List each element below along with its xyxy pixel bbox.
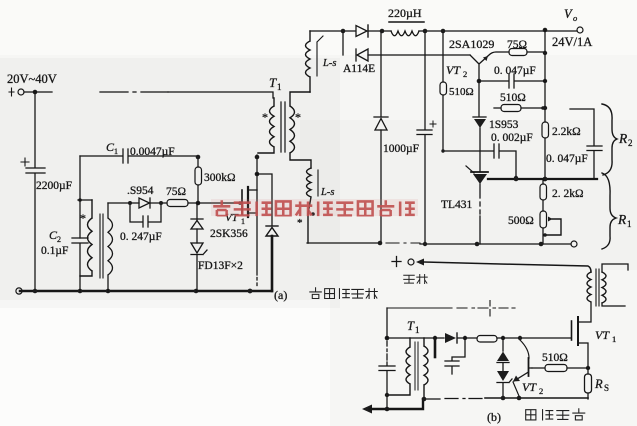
label input <box>404 275 428 284</box>
capacitor stub <box>434 338 437 357</box>
watermark text <box>211 199 418 216</box>
svg-text:500Ω: 500Ω <box>508 215 534 227</box>
capacitor 0.047uF no.2 <box>570 109 602 178</box>
capacitor protection left <box>379 341 395 409</box>
terminal bottom right <box>571 241 577 247</box>
svg-text:0. 047µF: 0. 047µF <box>546 153 588 165</box>
wire gate <box>198 202 239 204</box>
wire left vertical node <box>79 156 81 238</box>
node dots bottom rail <box>33 289 38 294</box>
resistor 2.2k upper <box>542 122 549 138</box>
terminal Vo <box>577 27 583 33</box>
svg-text:220µH: 220µH <box>388 6 422 20</box>
terminal bottom-left <box>16 288 22 294</box>
svg-text:2: 2 <box>539 386 543 396</box>
svg-text:R: R <box>618 131 628 146</box>
svg-text:R: R <box>594 377 603 391</box>
transformer T1 aux winding left <box>80 200 92 276</box>
transformer T1 secondary winding <box>290 92 311 168</box>
svg-text:1: 1 <box>114 147 118 156</box>
core aux <box>100 214 103 278</box>
transformer T1b upper right <box>587 272 591 302</box>
svg-text:2SA1029: 2SA1029 <box>449 37 494 51</box>
svg-text:2: 2 <box>463 69 467 79</box>
wire protection left column <box>386 308 388 338</box>
svg-text:o: o <box>573 13 577 23</box>
terminal input plus <box>392 257 401 267</box>
svg-text:(b): (b) <box>487 410 501 424</box>
diode FD13F no.1 <box>191 203 203 220</box>
resistor 2.2k lower <box>540 184 547 200</box>
svg-text:1: 1 <box>627 219 632 229</box>
diode secondary rectifier <box>374 33 388 117</box>
svg-text:510Ω: 510Ω <box>449 86 474 98</box>
diode protection <box>445 333 456 343</box>
node dots top rail <box>341 29 346 34</box>
wire input top <box>24 91 52 93</box>
wire jog to clamp diode <box>257 174 272 226</box>
svg-text:*: * <box>262 110 268 124</box>
svg-text:.S954: .S954 <box>127 185 154 197</box>
svg-text:1: 1 <box>277 82 282 92</box>
diode FD13F no.2 zener <box>191 243 203 253</box>
svg-text:300kΩ: 300kΩ <box>204 172 236 184</box>
svg-text:1: 1 <box>612 334 616 344</box>
svg-text:*: * <box>80 211 86 225</box>
svg-text:VT: VT <box>446 63 461 77</box>
wire drain-source column <box>256 155 258 286</box>
svg-text:2. 2kΩ: 2. 2kΩ <box>552 188 584 200</box>
core T1 <box>281 102 285 152</box>
svg-text:2.2kΩ: 2.2kΩ <box>552 126 581 138</box>
svg-text:T: T <box>407 319 415 333</box>
inductor Ls upper <box>306 31 311 92</box>
node dots gate wire <box>501 336 505 340</box>
svg-text:(a): (a) <box>274 288 287 302</box>
wire bottom-left rail <box>20 290 272 293</box>
diode forward rectifier top <box>356 26 367 37</box>
svg-text:2SK356: 2SK356 <box>210 228 248 240</box>
svg-text:*: * <box>295 110 301 124</box>
svg-text:2200µF: 2200µF <box>36 180 72 192</box>
plus terminal mark <box>9 88 14 96</box>
capacitor 0.247uF parallel <box>130 203 161 227</box>
node input junction <box>33 90 38 95</box>
diode A114E <box>343 33 356 61</box>
wire feedback node <box>488 178 597 180</box>
svg-text:2: 2 <box>57 235 61 244</box>
wire bottom rail right <box>307 242 380 244</box>
svg-text:L-s: L-s <box>322 58 336 69</box>
capacitor 2200uF electrolytic <box>26 94 45 291</box>
diode 1S953 zener <box>473 81 486 117</box>
svg-text:75Ω: 75Ω <box>166 186 186 198</box>
wire dash-dot top <box>100 91 168 93</box>
svg-text:R: R <box>617 212 627 227</box>
svg-text:1S953: 1S953 <box>489 119 519 131</box>
resistor RS <box>585 374 592 393</box>
capacitor after diode <box>445 338 465 374</box>
wire right column <box>544 30 546 179</box>
svg-text:T: T <box>269 75 277 90</box>
svg-text:A114E: A114E <box>343 63 375 75</box>
svg-text:510Ω: 510Ω <box>500 92 526 104</box>
IC TL431 <box>466 166 474 173</box>
inductor Ls lower <box>307 168 312 243</box>
svg-text:2: 2 <box>628 138 633 148</box>
transistor VT2b protection <box>520 340 529 358</box>
brace R1 <box>602 173 616 249</box>
svg-text:0. 247µF: 0. 247µF <box>120 231 162 243</box>
resistor gate protection <box>477 336 497 343</box>
svg-text:510Ω: 510Ω <box>542 352 568 364</box>
svg-text:0.1µF: 0.1µF <box>41 245 68 257</box>
wire top rail <box>310 30 577 32</box>
svg-text:TL431: TL431 <box>441 199 473 211</box>
svg-text:0. 002µF: 0. 002µF <box>491 132 533 144</box>
wire protection gate line <box>387 337 477 339</box>
capacitor 0.002uF <box>443 144 516 176</box>
input terminal circle + <box>18 89 24 95</box>
svg-text:FD13F×2: FD13F×2 <box>198 260 243 272</box>
diode zener pair <box>502 338 504 351</box>
svg-text:VT: VT <box>595 328 610 342</box>
transistor VT1b MOSFET protection <box>578 303 591 322</box>
node gate junction <box>196 201 201 206</box>
svg-text:L-s: L-s <box>320 187 334 198</box>
wire top to transformer <box>168 92 273 98</box>
svg-text:VT: VT <box>522 380 537 394</box>
wire jog to aux winding <box>78 199 92 201</box>
svg-text:*: * <box>297 217 303 229</box>
transformer T1 aux winding right <box>108 203 113 291</box>
wire protection bottom rail <box>362 405 372 414</box>
svg-text:1: 1 <box>241 217 245 226</box>
svg-text:20V~40V: 20V~40V <box>7 72 57 86</box>
wire input to protection transformer <box>416 259 424 266</box>
svg-text:24V/1A: 24V/1A <box>552 35 592 49</box>
brace R2 <box>602 104 617 175</box>
svg-text:0. 047µF: 0. 047µF <box>494 65 536 77</box>
diode clamp <box>266 225 278 227</box>
svg-text:1: 1 <box>415 325 420 335</box>
svg-text:1000µF: 1000µF <box>383 143 419 155</box>
svg-text:S: S <box>604 383 609 393</box>
transistor VT1 2SK356 MOSFET <box>241 190 243 214</box>
wire source RS <box>578 343 588 399</box>
